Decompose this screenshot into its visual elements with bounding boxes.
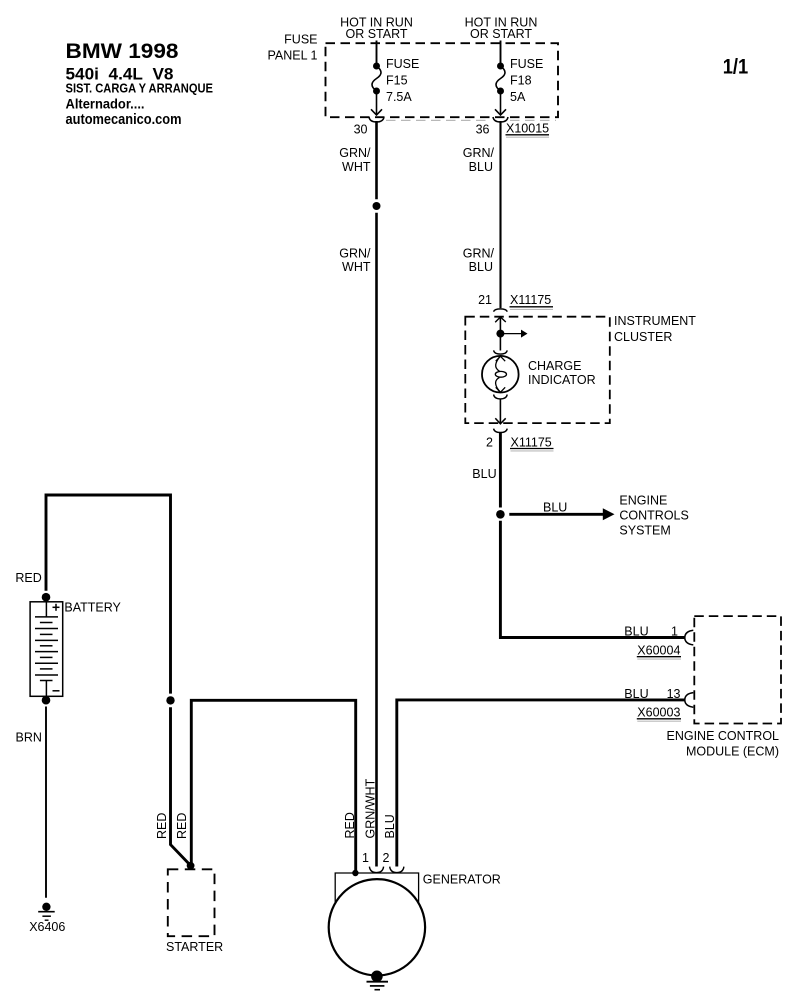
svg-text:GRN/: GRN/ xyxy=(339,146,371,160)
svg-text:7.5A: 7.5A xyxy=(386,90,412,104)
svg-text:BLU: BLU xyxy=(624,687,648,701)
svg-text:2: 2 xyxy=(486,435,493,449)
svg-text:WHT: WHT xyxy=(342,160,371,174)
svg-text:RED: RED xyxy=(343,812,357,838)
svg-text:X60004: X60004 xyxy=(637,644,680,658)
svg-text:13: 13 xyxy=(667,687,681,701)
wire stub into fuse F18 xyxy=(500,41,502,67)
junction node starter branch xyxy=(166,696,174,704)
svg-text:GRN/: GRN/ xyxy=(463,146,495,160)
junction node starter terminal xyxy=(187,862,195,870)
svg-text:BLU: BLU xyxy=(472,467,496,481)
svg-text:CHARGE: CHARGE xyxy=(528,359,581,373)
junction node BLU xyxy=(496,510,505,519)
wire BLU to ECM pin 1 xyxy=(500,521,685,638)
engine control module dashed box xyxy=(694,616,781,723)
svg-text:BRN: BRN xyxy=(16,731,42,745)
svg-text:BLU: BLU xyxy=(543,501,567,515)
connector cup pin 30 xyxy=(369,117,384,122)
fuse F18 exit wire with arrow xyxy=(500,91,502,115)
svg-text:FUSE: FUSE xyxy=(386,57,419,71)
svg-text:STARTER: STARTER xyxy=(166,940,223,954)
svg-text:RED: RED xyxy=(155,813,169,839)
wire RED to starter (left, diagonal) xyxy=(171,707,191,865)
svg-text:BMW 1998: BMW 1998 xyxy=(66,40,179,63)
ground (generator case) xyxy=(371,971,383,983)
svg-text:FUSE: FUSE xyxy=(510,57,543,71)
svg-text:BLU: BLU xyxy=(624,625,648,639)
svg-text:BLU: BLU xyxy=(469,260,493,274)
branch arrow right inside cluster xyxy=(500,333,521,335)
svg-text:BLU: BLU xyxy=(383,814,397,838)
svg-text:FUSE: FUSE xyxy=(284,33,317,47)
svg-text:RED: RED xyxy=(175,813,189,839)
svg-text:X60003: X60003 xyxy=(637,706,680,720)
svg-text:ENGINE: ENGINE xyxy=(619,494,667,508)
lamp bottom arrowhead xyxy=(496,387,506,392)
svg-text:automecanico.com: automecanico.com xyxy=(66,111,182,128)
svg-text:BLU: BLU xyxy=(469,160,493,174)
svg-text:5A: 5A xyxy=(510,90,526,104)
junction dot inside cluster xyxy=(496,330,504,338)
fuse F15 xyxy=(373,63,380,70)
svg-text:X11175: X11175 xyxy=(510,293,551,307)
svg-text:ENGINE CONTROL: ENGINE CONTROL xyxy=(666,729,779,743)
splice junction on GRN/WHT xyxy=(373,202,381,210)
fuse F18 xyxy=(497,63,504,70)
lamp filament xyxy=(496,356,501,371)
generator housing box xyxy=(335,873,418,903)
svg-text:1: 1 xyxy=(362,851,369,865)
svg-text:CLUSTER: CLUSTER xyxy=(614,330,672,344)
wire stub into fuse F15 xyxy=(376,41,378,67)
connector umbrella pin 21 xyxy=(494,309,508,312)
svg-text:GRN/WHT: GRN/WHT xyxy=(363,778,377,838)
svg-text:F15: F15 xyxy=(386,74,408,88)
lamp top arrowhead xyxy=(496,356,506,361)
wire BLU generator pin 2 to ECM pin 13 xyxy=(397,700,685,867)
svg-text:GENERATOR: GENERATOR xyxy=(423,872,501,886)
ground X6406 xyxy=(42,903,50,911)
svg-text:PANEL 1: PANEL 1 xyxy=(267,49,317,63)
junction node generator B+ xyxy=(352,870,358,876)
connector cup above lamp xyxy=(494,350,508,354)
junction node battery negative xyxy=(42,696,51,705)
svg-text:BATTERY: BATTERY xyxy=(64,601,121,615)
connector cup pin 36 xyxy=(493,117,508,122)
svg-text:1: 1 xyxy=(671,625,678,639)
svg-text:CONTROLS: CONTROLS xyxy=(619,508,688,522)
svg-text:OR START: OR START xyxy=(345,27,407,41)
connector cup ECM pin 13 xyxy=(685,693,694,708)
wire GRN/BLU xyxy=(499,121,501,308)
wire inside cluster to junction xyxy=(499,317,501,351)
instrument cluster dashed box xyxy=(465,317,610,423)
svg-text:SIST. CARGA Y ARRANQUE: SIST. CARGA Y ARRANQUE xyxy=(66,81,214,96)
gray echo dashes under fuse box xyxy=(386,119,491,121)
charge indicator lamp U1 xyxy=(482,356,519,393)
svg-text:INSTRUMENT: INSTRUMENT xyxy=(614,314,696,328)
svg-text:SYSTEM: SYSTEM xyxy=(619,523,670,537)
svg-text:21: 21 xyxy=(478,293,492,307)
svg-text:36: 36 xyxy=(476,123,490,137)
svg-text:RED: RED xyxy=(15,571,41,585)
battery symbol xyxy=(30,602,63,697)
wire GRN/WHT upper xyxy=(375,121,378,199)
junction node battery positive xyxy=(42,593,51,602)
svg-text:GRN/: GRN/ xyxy=(463,247,495,261)
svg-text:INDICATOR: INDICATOR xyxy=(528,373,596,387)
svg-text:Alternador....: Alternador.... xyxy=(66,96,145,112)
connector cup generator pin 2 xyxy=(390,867,404,873)
branch wire BLU to engine controls system xyxy=(509,513,603,516)
svg-text:WHT: WHT xyxy=(342,260,371,274)
connector cup ECM pin 1 xyxy=(685,630,694,645)
wire GRN/WHT lower (to generator pin 1) xyxy=(375,213,378,867)
svg-text:GRN/: GRN/ xyxy=(339,247,371,261)
exit arrow of cluster xyxy=(495,418,505,424)
connector cup below lamp xyxy=(494,395,508,399)
starter dashed box xyxy=(168,869,215,936)
connector cup pin 2 xyxy=(494,429,508,433)
svg-text:30: 30 xyxy=(354,123,368,137)
wire from lamp to cluster exit xyxy=(499,399,501,424)
svg-text:2: 2 xyxy=(383,851,390,865)
svg-text:OR START: OR START xyxy=(470,27,532,41)
svg-text:X10015: X10015 xyxy=(506,122,549,136)
wire RED starter to generator run xyxy=(191,700,355,873)
svg-text:X6406: X6406 xyxy=(29,920,65,934)
wire RED battery top loop xyxy=(46,495,171,694)
connector cup generator pin 1 xyxy=(369,867,383,873)
fuse F15 exit wire with arrow xyxy=(376,91,378,115)
svg-text:MODULE (ECM): MODULE (ECM) xyxy=(686,744,779,758)
svg-text:F18: F18 xyxy=(510,74,532,88)
svg-text:X11175: X11175 xyxy=(511,435,552,449)
wire BLU from cluster xyxy=(499,433,502,508)
fuse panel 1 dashed box xyxy=(326,43,559,117)
generator G1 circle xyxy=(329,879,425,975)
entry arrow into cluster xyxy=(495,317,506,322)
wire BRN battery to ground xyxy=(45,707,47,898)
svg-text:1/1: 1/1 xyxy=(723,55,749,78)
